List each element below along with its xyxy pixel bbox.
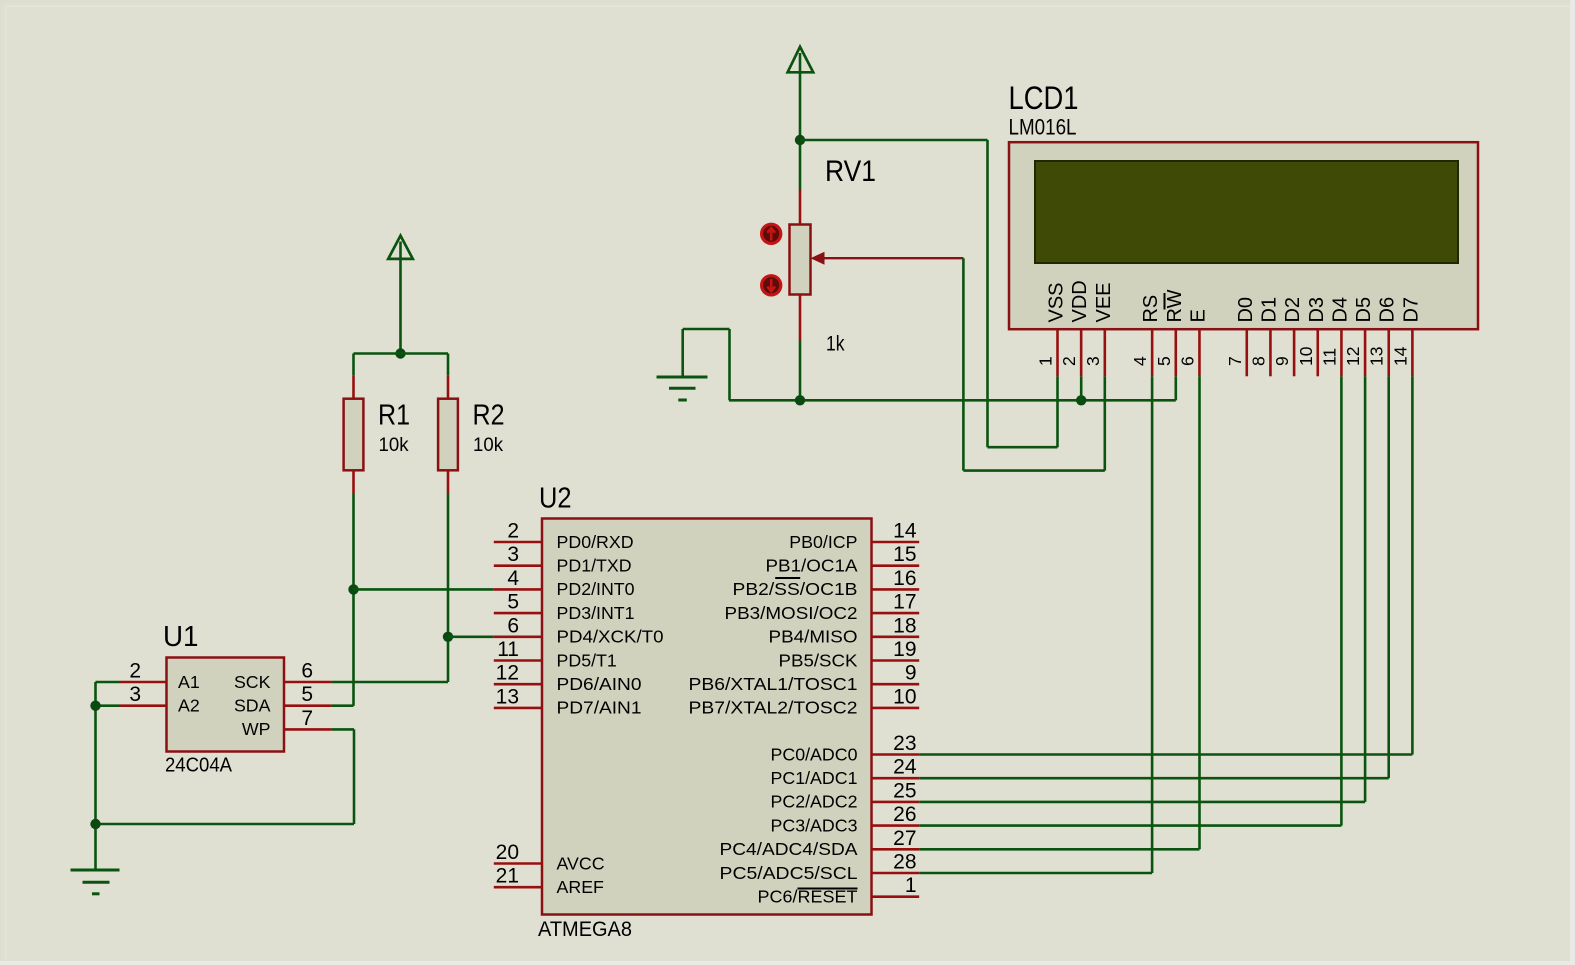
- svg-text:10k: 10k: [379, 434, 409, 456]
- U2 pin 27 stub: [872, 848, 920, 851]
- svg-text:18: 18: [893, 614, 916, 637]
- svg-text:1: 1: [905, 874, 917, 897]
- svg-text:14: 14: [1390, 346, 1410, 366]
- U2 pin number 10: [893, 685, 916, 708]
- svg-text:RW: RW: [1164, 289, 1186, 322]
- label RV1: [825, 155, 876, 188]
- U2 pin number 28: [893, 851, 916, 874]
- U1 pin 5 (SDA): [284, 704, 331, 707]
- svg-text:27: 27: [893, 827, 916, 850]
- wire to R2 top: [447, 354, 450, 376]
- LCD1 pin 6 stub: [1198, 330, 1201, 377]
- U2 pin 14 stub: [872, 541, 920, 544]
- LCD1 pin name RS: [1140, 295, 1162, 323]
- node R1-R2 power junction: [395, 348, 405, 358]
- wire RV1 wiper down to VEE: [963, 258, 1104, 470]
- svg-text:12: 12: [496, 662, 519, 685]
- U2 pin number 17: [893, 591, 916, 614]
- svg-text:4: 4: [507, 567, 519, 590]
- U2 pin name PB1/OC1A: [766, 556, 858, 576]
- U2 pin 26 stub: [872, 824, 920, 827]
- svg-text:24: 24: [893, 756, 917, 779]
- potentiometer RV1 bottom pin: [799, 295, 802, 341]
- U2 pin 9 stub: [872, 683, 920, 686]
- U2 pin number 9: [905, 662, 917, 685]
- U1 pin 6 (SCK): [284, 681, 331, 684]
- resistor R2 body: [438, 399, 458, 471]
- U2 pin 12 stub: [494, 683, 542, 686]
- svg-text:13: 13: [1367, 347, 1387, 366]
- U2 pin number 25: [893, 779, 916, 802]
- svg-text:6: 6: [1177, 356, 1197, 366]
- LCD1 pin name D3: [1306, 297, 1328, 323]
- svg-text:17: 17: [893, 591, 916, 614]
- wire A2 to ground net: [96, 704, 120, 707]
- U2 pin name PD5/T1: [557, 650, 617, 670]
- U2 pin 5 stub: [494, 612, 542, 615]
- LCD1 pin 13 stub: [1387, 330, 1390, 377]
- svg-text:PD5/T1: PD5/T1: [557, 650, 617, 670]
- svg-text:ATMEGA8: ATMEGA8: [538, 918, 632, 941]
- resistor R2 top pin: [447, 375, 450, 398]
- svg-text:2: 2: [1059, 356, 1079, 366]
- U2 pin 20 stub: [494, 862, 542, 865]
- ground rail wire: [729, 399, 1176, 402]
- U2 pin number 14: [893, 520, 917, 543]
- wire to R1 top: [352, 354, 355, 376]
- U2 pin 3 stub: [494, 564, 542, 567]
- ground (RV1 net): [657, 329, 730, 400]
- U2 pin name PB5/SCK: [779, 650, 858, 670]
- wire SCK horizontal: [331, 681, 448, 684]
- U2 pin 25 stub: [872, 801, 920, 804]
- LCD1 pin 11 stub: [1340, 330, 1343, 377]
- U2 pin 21 stub: [494, 886, 542, 889]
- potentiometer RV1 body: [790, 225, 811, 295]
- U2 pin name PB2/SS/OC1B: [733, 579, 858, 599]
- svg-text:VDD: VDD: [1069, 280, 1091, 322]
- resistor R1 body: [344, 399, 364, 471]
- U2 pin 1 stub: [872, 895, 920, 898]
- LCD1 pin number 3: [1083, 356, 1103, 366]
- U2 pin 28 stub: [872, 872, 920, 875]
- U1 pin name A1: [178, 672, 200, 692]
- U2 pin number 3: [507, 543, 519, 566]
- svg-text:7: 7: [301, 707, 313, 730]
- U2 pin name AVCC: [557, 853, 605, 873]
- U2 pin 15 stub: [872, 564, 920, 567]
- svg-text:16: 16: [893, 567, 916, 590]
- svg-text:PD0/RXD: PD0/RXD: [557, 532, 634, 552]
- svg-text:PC0/ADC0: PC0/ADC0: [771, 744, 858, 764]
- U2 pin 16 stub: [872, 588, 920, 591]
- mcu U2 body: [542, 519, 872, 915]
- wire D6 to PC1 net: [919, 376, 1388, 778]
- svg-text:15: 15: [893, 543, 916, 566]
- svg-text:PD6/AIN0: PD6/AIN0: [557, 674, 642, 694]
- svg-text:PB3/MOSI/OC2: PB3/MOSI/OC2: [725, 603, 858, 623]
- wire VDD stub to rail: [1080, 376, 1083, 400]
- U2 pin 2 stub: [494, 541, 542, 544]
- svg-text:11: 11: [1319, 348, 1339, 366]
- potentiometer RV1 wiper arrow: [811, 252, 964, 265]
- U2 pin 24 stub: [872, 777, 920, 780]
- wire R1 bottom to SDA net: [352, 494, 355, 706]
- LCD1 pin name D2: [1282, 297, 1304, 323]
- U2 pin name PC6/RESET: [758, 887, 858, 907]
- LCD1 pin number 13: [1367, 347, 1387, 366]
- LCD1 pin 9 stub: [1293, 330, 1296, 377]
- U2 pin number 19: [893, 638, 916, 661]
- label U2: [539, 483, 572, 515]
- svg-text:PB7/XTAL2/TOSC2: PB7/XTAL2/TOSC2: [689, 698, 858, 718]
- svg-text:10: 10: [893, 685, 916, 708]
- node R1-INT0 junction: [348, 584, 358, 594]
- U1 pin number 6: [301, 660, 313, 683]
- LCD1 pin 3 stub: [1104, 330, 1107, 377]
- U2 pin name PD6/AIN0: [557, 674, 642, 694]
- svg-text:28: 28: [893, 851, 916, 874]
- LCD1 pin 10 stub: [1316, 330, 1319, 377]
- U2 pin number 6: [507, 614, 519, 637]
- U1 pin name SCK: [234, 672, 271, 692]
- svg-text:AVCC: AVCC: [557, 853, 605, 873]
- svg-text:A2: A2: [178, 696, 200, 716]
- LCD1 pin number 2: [1059, 356, 1079, 366]
- svg-text:R1: R1: [378, 400, 410, 432]
- overline RESET (U2 pin1): [798, 888, 858, 890]
- svg-text:D7: D7: [1400, 297, 1422, 323]
- potentiometer RV1 top pin: [799, 190, 802, 225]
- svg-text:U2: U2: [539, 483, 572, 515]
- LCD1 pin number 9: [1272, 356, 1292, 366]
- lcd LCD1 body: [1009, 142, 1478, 329]
- svg-text:SCK: SCK: [234, 672, 271, 692]
- U2 pin number 11: [497, 638, 519, 661]
- svg-text:RS: RS: [1140, 295, 1162, 323]
- value 10k (R1): [379, 434, 409, 456]
- svg-text:PB1/OC1A: PB1/OC1A: [766, 556, 858, 576]
- svg-text:WP: WP: [242, 719, 271, 739]
- label LM016L: [1009, 115, 1077, 140]
- LCD1 pin number 8: [1248, 356, 1268, 366]
- svg-text:11: 11: [497, 638, 519, 661]
- U1 pin number 7: [301, 707, 313, 730]
- wire RV1 top to node: [799, 140, 802, 190]
- LCD1 pin number 10: [1296, 346, 1316, 366]
- LCD1 pin name VEE: [1093, 282, 1115, 322]
- svg-text:14: 14: [893, 520, 917, 543]
- svg-text:U1: U1: [163, 621, 199, 653]
- U1 pin 7 (WP): [284, 728, 331, 731]
- svg-text:VEE: VEE: [1093, 282, 1115, 322]
- U2 pin number 4: [507, 567, 519, 590]
- LCD1 pin 7 stub: [1245, 330, 1248, 377]
- LCD1 pin name D5: [1353, 297, 1375, 323]
- LCD1 pin number 6: [1177, 356, 1197, 366]
- LCD1 pin name RW: [1164, 289, 1186, 322]
- wire rail up to RW: [1175, 376, 1178, 400]
- wire D7 to PC0 net: [919, 376, 1412, 754]
- node R2-XCK junction: [443, 632, 453, 642]
- U1 pin name A2: [178, 696, 200, 716]
- U2 pin 10 stub: [872, 707, 920, 710]
- svg-text:1: 1: [1036, 356, 1056, 366]
- svg-text:6: 6: [507, 614, 519, 637]
- svg-text:PD4/XCK/T0: PD4/XCK/T0: [557, 627, 664, 647]
- svg-text:D1: D1: [1258, 297, 1280, 323]
- U2 pin number 21: [496, 865, 519, 888]
- LCD1 pin name D6: [1377, 297, 1399, 323]
- svg-text:3: 3: [129, 683, 141, 706]
- svg-text:PC3/ADC3: PC3/ADC3: [771, 815, 858, 835]
- LCD1 pin number 5: [1154, 356, 1174, 366]
- wire power node horizontal: [354, 352, 449, 355]
- ground (U1 net): [71, 870, 120, 894]
- U2 pin name PB7/XTAL2/TOSC2: [689, 698, 858, 718]
- svg-text:E: E: [1187, 309, 1209, 322]
- resistor R1 top pin: [352, 375, 355, 398]
- overline SS (U2 pin16): [775, 577, 800, 579]
- wire SDA horizontal: [331, 704, 353, 707]
- wire RV1 bottom to ground rail: [799, 341, 802, 401]
- svg-text:PB6/XTAL1/TOSC1: PB6/XTAL1/TOSC1: [689, 674, 858, 694]
- U1 pin number 5: [301, 683, 313, 706]
- svg-text:21: 21: [496, 865, 519, 888]
- U2 pin number 15: [893, 543, 916, 566]
- svg-text:9: 9: [1272, 356, 1292, 366]
- U1 pin name SDA: [234, 696, 271, 716]
- U2 pin 18 stub: [872, 635, 920, 638]
- svg-text:PC2/ADC2: PC2/ADC2: [771, 792, 858, 812]
- svg-text:D5: D5: [1353, 297, 1375, 323]
- node RV1-top junction: [795, 135, 805, 145]
- wire WP loop: [96, 729, 355, 824]
- U2 pin name PC5/ADC5/SCL: [720, 863, 858, 883]
- resistor R2 bottom pin: [447, 470, 450, 494]
- U1 pin number 3: [129, 683, 141, 706]
- LCD1 pin number 1: [1036, 356, 1056, 366]
- svg-text:5: 5: [1154, 356, 1174, 366]
- svg-text:PB5/SCK: PB5/SCK: [779, 650, 858, 670]
- LCD1 pin 12 stub: [1364, 330, 1367, 377]
- label R1: [378, 400, 410, 432]
- overline W of RW (LCD1 pin5): [1164, 293, 1166, 310]
- svg-text:D2: D2: [1282, 297, 1304, 323]
- LCD1 pin name D1: [1258, 297, 1280, 323]
- svg-text:PD1/TXD: PD1/TXD: [557, 556, 632, 576]
- U2 pin name PD1/TXD: [557, 556, 632, 576]
- svg-text:PB2/SS/OC1B: PB2/SS/OC1B: [733, 579, 858, 599]
- LCD1 pin 8 stub: [1269, 330, 1272, 377]
- U2 pin number 27: [893, 827, 916, 850]
- LCD1 pin name E: [1187, 309, 1209, 322]
- U2 pin number 1: [905, 874, 917, 897]
- wire E to PC4 net: [919, 376, 1199, 849]
- U2 pin name PC3/ADC3: [771, 815, 858, 835]
- LCD1 pin number 14: [1390, 346, 1410, 366]
- svg-text:1k: 1k: [826, 333, 845, 356]
- svg-text:PD3/INT1: PD3/INT1: [557, 603, 635, 623]
- svg-text:AREF: AREF: [557, 877, 605, 897]
- U2 pin 23 stub: [872, 753, 920, 756]
- LCD1 pin number 4: [1130, 356, 1150, 366]
- U2 pin number 2: [507, 520, 519, 543]
- node A2 junction: [90, 701, 100, 711]
- svg-text:RV1: RV1: [825, 155, 876, 188]
- U2 pin number 24: [893, 756, 917, 779]
- U2 pin number 26: [893, 803, 916, 826]
- svg-text:24C04A: 24C04A: [165, 755, 233, 777]
- wire node to LCD VSS (right/down): [800, 140, 1058, 447]
- svg-text:A1: A1: [178, 672, 200, 692]
- label LCD1: [1009, 80, 1079, 116]
- svg-text:PC4/ADC4/SDA: PC4/ADC4/SDA: [720, 839, 858, 859]
- U1 pin 3 (A2): [119, 704, 167, 707]
- U2 pin name PD7/AIN1: [557, 698, 642, 718]
- svg-text:R2: R2: [473, 400, 505, 432]
- svg-text:25: 25: [893, 779, 916, 802]
- wire INT0 (node to U2 pin4): [354, 588, 494, 591]
- LCD1 pin 5 stub: [1175, 330, 1178, 377]
- LCD1 pin 4 stub: [1151, 330, 1154, 377]
- U2 pin name PD2/INT0: [557, 579, 635, 599]
- node WP-ground junction: [90, 819, 100, 829]
- LCD1 pin 14 stub: [1411, 330, 1414, 377]
- label 24C04A: [165, 755, 233, 777]
- U2 pin 6 stub: [494, 635, 542, 638]
- U2 pin name PB6/XTAL1/TOSC1: [689, 674, 858, 694]
- node LCD-VDD junction: [1076, 395, 1086, 405]
- U2 pin number 18: [893, 614, 916, 637]
- U2 pin name PD0/RXD: [557, 532, 634, 552]
- node pot-bottom junction: [795, 395, 805, 405]
- U2 pin number 12: [496, 662, 519, 685]
- svg-text:PC1/ADC1: PC1/ADC1: [771, 768, 858, 788]
- U2 pin 17 stub: [872, 612, 920, 615]
- U2 pin name PC1/ADC1: [771, 768, 858, 788]
- svg-text:7: 7: [1225, 356, 1245, 366]
- RV1 increment button: [762, 224, 781, 243]
- U2 pin name PC4/ADC4/SDA: [720, 839, 858, 859]
- U2 pin number 16: [893, 567, 916, 590]
- label U1: [163, 621, 199, 653]
- svg-text:6: 6: [301, 660, 313, 683]
- svg-text:8: 8: [1248, 356, 1268, 366]
- wire R2 bottom to SCK net: [447, 494, 450, 682]
- U1 pin 2 (A1): [119, 681, 167, 684]
- svg-text:D3: D3: [1306, 297, 1328, 323]
- svg-text:PB0/ICP: PB0/ICP: [789, 532, 857, 552]
- svg-text:19: 19: [893, 638, 916, 661]
- U2 pin name PB4/MISO: [769, 627, 858, 647]
- svg-text:PB4/MISO: PB4/MISO: [769, 627, 858, 647]
- svg-text:10k: 10k: [473, 434, 503, 456]
- svg-text:12: 12: [1343, 347, 1363, 366]
- svg-text:20: 20: [496, 841, 519, 864]
- U2 pin name PC0/ADC0: [771, 744, 858, 764]
- wire D5 to PC2 net: [919, 376, 1365, 802]
- LCD1 pin name D7: [1400, 297, 1422, 323]
- LCD1 pin name VSS: [1046, 282, 1068, 322]
- svg-text:LM016L: LM016L: [1009, 115, 1077, 140]
- power symbol VCC (above RV1): [788, 47, 814, 140]
- U2 pin number 20: [496, 841, 519, 864]
- U2 pin name PB0/ICP: [789, 532, 857, 552]
- svg-text:PD2/INT0: PD2/INT0: [557, 579, 635, 599]
- svg-text:3: 3: [507, 543, 519, 566]
- U2 pin number 23: [893, 732, 916, 755]
- LCD1 pin 1 stub: [1056, 330, 1059, 377]
- svg-text:PD7/AIN1: PD7/AIN1: [557, 698, 642, 718]
- value 1k: [826, 333, 845, 356]
- resistor R1 bottom pin: [352, 470, 355, 494]
- svg-text:PC5/ADC5/SCL: PC5/ADC5/SCL: [720, 863, 858, 883]
- LCD1 pin name D0: [1235, 297, 1257, 323]
- wire D4 to PC3 net: [919, 376, 1341, 825]
- svg-text:9: 9: [905, 662, 917, 685]
- svg-text:D0: D0: [1235, 297, 1257, 323]
- svg-text:2: 2: [507, 520, 519, 543]
- svg-text:5: 5: [301, 683, 313, 706]
- svg-text:23: 23: [893, 732, 916, 755]
- wire A1 to ground net: [96, 682, 120, 870]
- U2 pin 11 stub: [494, 659, 542, 662]
- svg-text:3: 3: [1083, 356, 1103, 366]
- label ATMEGA8: [538, 918, 632, 941]
- LCD1 pin number 12: [1343, 347, 1363, 366]
- power symbol VCC (above R1 R2): [388, 236, 413, 354]
- label R2: [473, 400, 505, 432]
- U2 pin number 5: [507, 591, 519, 614]
- LCD1 pin 2 stub: [1080, 330, 1083, 377]
- svg-text:D4: D4: [1329, 297, 1351, 323]
- U2 pin 4 stub: [494, 588, 542, 591]
- svg-text:SDA: SDA: [234, 696, 271, 716]
- LCD1 pin name D4: [1329, 297, 1351, 323]
- wire RS to PC5 net: [919, 376, 1152, 873]
- U1 pin number 2: [129, 660, 141, 683]
- svg-text:13: 13: [496, 685, 519, 708]
- value 10k (R2): [473, 434, 503, 456]
- U2 pin name PB3/MOSI/OC2: [725, 603, 858, 623]
- U2 pin name AREF: [557, 877, 605, 897]
- U2 pin 19 stub: [872, 659, 920, 662]
- LCD1 pin number 7: [1225, 356, 1245, 366]
- lcd LCD1 screen: [1035, 161, 1458, 263]
- svg-text:2: 2: [129, 660, 141, 683]
- LCD1 pin number 11: [1319, 348, 1339, 366]
- svg-text:5: 5: [507, 591, 519, 614]
- RV1 decrement button: [762, 276, 781, 295]
- svg-text:4: 4: [1130, 356, 1150, 366]
- svg-text:26: 26: [893, 803, 916, 826]
- wire XCK (node to U2 pin6): [448, 635, 494, 638]
- LCD1 pin name VDD: [1069, 280, 1091, 322]
- svg-text:VSS: VSS: [1046, 282, 1068, 322]
- U2 pin 13 stub: [494, 707, 542, 710]
- U2 pin name PD4/XCK/T0: [557, 627, 664, 647]
- U1 pin name WP: [242, 719, 271, 739]
- U2 pin name PC2/ADC2: [771, 792, 858, 812]
- U2 pin number 13: [496, 685, 519, 708]
- svg-text:LCD1: LCD1: [1009, 80, 1079, 116]
- eeprom U1 body: [167, 658, 285, 752]
- svg-text:10: 10: [1296, 346, 1316, 366]
- U2 pin name PD3/INT1: [557, 603, 635, 623]
- svg-text:D6: D6: [1377, 297, 1399, 323]
